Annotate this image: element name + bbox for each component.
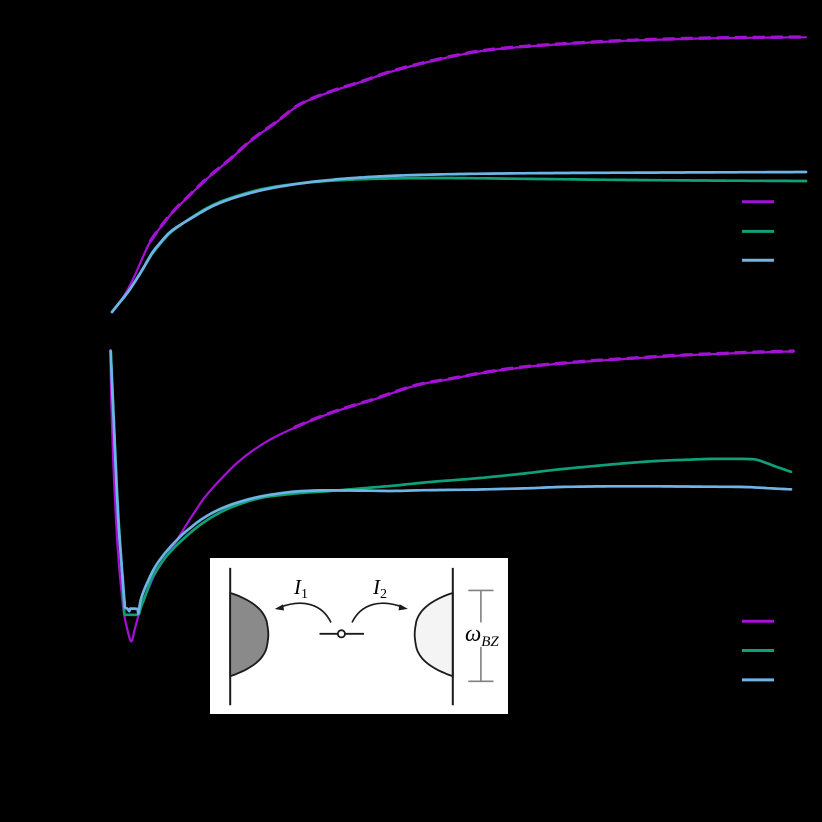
inset: impurity circle xyxy=(338,630,345,637)
top legend purple swatch xyxy=(742,200,774,203)
inset: bracket top cap xyxy=(468,589,493,591)
inset: left DOS bump (dark gray) xyxy=(230,593,268,676)
inset: right lead vertical line xyxy=(452,568,454,705)
top panel: purple dashed analytic curve xyxy=(150,37,806,242)
inset: omega_BZ bracket vertical (two segments) xyxy=(480,590,482,622)
bottom legend blue swatch xyxy=(742,678,774,681)
bottom panel: green curve xyxy=(111,351,791,615)
inset: bracket bottom cap xyxy=(468,680,493,682)
inset: impurity level line xyxy=(320,633,365,635)
bottom panel: purple dashed analytic curve xyxy=(294,351,794,428)
inset white box xyxy=(210,558,508,714)
bottom panel: light blue curve xyxy=(111,351,791,614)
top panel: light blue curve xyxy=(112,172,806,312)
inset: right arrow I2 xyxy=(352,603,404,622)
top panel: green curve (OCA) xyxy=(112,178,806,312)
bottom panel: purple solid curve xyxy=(110,350,794,641)
inset: right DOS bump (light gray) xyxy=(415,593,453,676)
inset: left arrow I1 xyxy=(280,603,332,622)
bottom legend green swatch xyxy=(742,649,774,652)
bottom legend purple swatch xyxy=(742,620,774,623)
top legend blue swatch xyxy=(742,259,774,262)
inset: left lead vertical line xyxy=(229,568,231,705)
top panel: purple solid curve (NCA) xyxy=(112,37,806,312)
top legend green swatch xyxy=(742,230,774,233)
